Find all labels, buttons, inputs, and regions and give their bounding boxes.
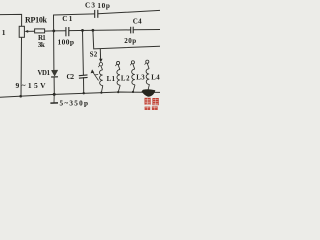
capacitor C2 variable arrow [93,72,99,81]
diode VD1 [51,70,57,76]
capacitor C4 plates [131,27,134,34]
svg-text:L1: L1 [107,76,116,83]
svg-text:10p: 10p [97,2,110,10]
svg-text:C1: C1 [62,15,72,23]
capacitor C3 plates [95,10,98,18]
svg-text:RP10k: RP10k [25,16,48,25]
potentiometer RP body [19,26,24,37]
wire bottom rail [0,92,160,97]
switch S2 contact circle 3 [131,61,134,64]
junction dot L2 on rail [117,91,119,93]
wire vertical x54 (node A branch with VD1) [53,15,55,70]
wire node A to C1 [54,30,66,32]
junction dot C2 on rail [83,92,85,94]
wire C4 to right edge [133,29,160,31]
svg-text:L3: L3 [136,75,145,82]
wire C2 to bottom rail [83,78,85,94]
svg-text:5~350p: 5~350p [60,100,89,108]
svg-text:L2: L2 [121,75,130,82]
wire R1 to node A [45,30,54,32]
red watermark glyph 1 [145,98,151,105]
ink blob stamp on rail [142,89,156,96]
inductor L2 [117,65,120,92]
capacitor C2 plates (variable) [79,75,88,78]
wire C1 to node B to node C to C4 [69,29,131,32]
wire top horizontal to C3 [54,14,95,15]
svg-text:S2: S2 [90,50,98,58]
potentiometer RP wiper arrowhead [24,30,28,33]
svg-text:L4: L4 [151,74,160,81]
junction dot L1 on rail [100,92,102,94]
red watermark glyph 2 [152,98,158,105]
ground [53,95,55,103]
switch S2 arm arrowhead [99,59,103,63]
switch S2 contact circle 1 [99,62,102,65]
capacitor C1 plates [66,27,69,36]
resistor R1 body [35,29,45,33]
svg-text:1: 1 [2,28,6,37]
inductor L1 [99,66,102,93]
paper background [0,0,160,110]
junction dot VD1 on rail [53,93,56,96]
svg-text:VD1: VD1 [38,70,51,77]
svg-text:C4: C4 [133,17,142,25]
junction dot L3 on rail [132,91,134,93]
wire top-left to RP top [0,14,22,26]
wire C3 to right edge [98,10,160,13]
svg-text:3k: 3k [38,41,45,49]
inductor L4 [146,63,149,91]
inductor L3 [132,64,135,92]
wire wiper to R1 [27,30,35,32]
wire S2 arm stem [99,49,101,60]
wire RP bottom down to bottom rail [20,37,23,96]
wire node B down to C2 [82,30,85,75]
svg-text:C2: C2 [67,74,75,81]
junction dot RP bottom on rail [19,95,22,98]
svg-text:100p: 100p [58,38,75,47]
red watermark fragment bottom edge 1 [145,107,151,110]
node C junction dot [92,29,95,32]
switch S2 contact circle 2 [117,61,120,64]
red watermark fragment bottom edge 2 [152,106,158,110]
node B junction dot [81,29,84,32]
wire node C down and right (S2 feed line) [93,30,160,49]
switch S2 contact circle 4 [146,60,149,63]
svg-text:20p: 20p [124,37,136,45]
node A junction dot [52,30,55,33]
